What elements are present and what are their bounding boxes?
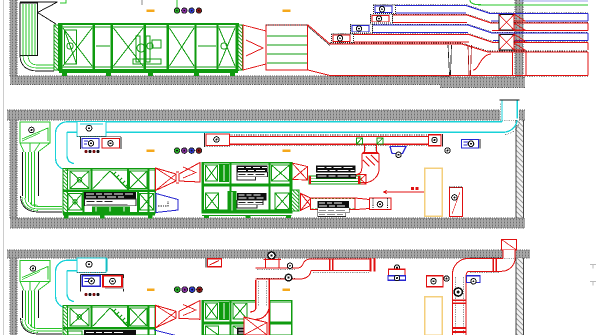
AHU A fan internals [133,36,161,64]
duct C right elbow top [468,258,515,272]
damper square 2 [377,138,383,144]
louver slot C [23,291,39,330]
AHU2 B label row2 [237,193,267,208]
duct C right elbow left + down leg [453,259,469,335]
label block B row1 [316,165,356,178]
cyan roof stub B [500,100,520,122]
AHU2 C frame [202,301,292,335]
fan unit D2 [371,14,393,23]
AHU2 C fan block [219,302,229,320]
silencer B row1 [309,176,360,184]
bowtie C [156,301,201,328]
red unit C [103,276,122,287]
S-duct C down leg overlay [250,279,269,335]
AHU A inlet louver strip [54,25,59,70]
S-duct C down leg [250,279,269,319]
mount bracket B [81,137,122,149]
roof band B [7,110,525,120]
AHU2 B frame [202,163,292,213]
flex braces at wall [514,14,525,50]
damper dot C right [454,288,462,296]
edge tick marks right [590,265,596,286]
AHU A discharge louver strip [238,25,243,70]
blue tag C right [467,276,481,284]
AHU A base [59,70,238,76]
ceiling supply duct B [229,135,432,145]
damper node C duct [285,274,292,281]
fan unit D1 [374,5,396,14]
AHU1 C row2 cell partial [68,331,82,335]
indicator dots C [84,293,99,296]
roof band C [7,250,530,258]
flange pair C right run [493,259,498,272]
AHU1 B cell2 row1 [130,171,148,189]
roof stub square C right [502,240,517,259]
hanger brace box 2 [499,35,514,51]
row2 supply duct B [311,198,356,210]
bowtie transition B [156,163,201,191]
discharge X transition C [244,317,267,335]
cyan end piece C [101,259,108,272]
orange dash C mid [282,288,284,290]
flex connector row2 B [301,193,311,210]
status dots C [174,287,202,293]
floor slab B [10,218,525,228]
status dots B [174,148,202,154]
red cabinet B [449,187,463,217]
AHU1 B coil bar [92,207,130,213]
status dots A [174,8,201,13]
orange dash B right [283,150,291,153]
column A (hatched wall pier) [515,0,523,78]
flex connector row1 left B [292,163,308,180]
AHU1 C frame [63,306,155,335]
duct D2 (red) [372,14,588,31]
indicator dots B [84,150,99,153]
AHU2 B cell row1 left [206,165,218,181]
red unit B [102,139,120,149]
duct D4 (red) [333,34,588,51]
louver elbow A [20,56,54,72]
AHU2 B cell row1 right [272,165,290,181]
branch drop duct B [362,145,379,169]
return duct riser B (cyan elbow down) [56,122,75,170]
duct end unit B [429,134,443,147]
fan unit D3 [351,24,373,33]
roof line green A [470,0,588,5]
intake louver A [20,3,38,56]
wall A left [10,0,17,76]
blue unit B [82,139,99,149]
intake hood C [20,261,50,282]
duct D1 (blue) [375,5,588,22]
AHU2 B label row1 [237,166,268,181]
end cap C run2 [370,258,376,272]
damper blade curve A [473,54,491,70]
S-duct C run1 [256,268,301,279]
faint blue line A [520,0,588,2]
wall C right [516,258,524,335]
AHU2 B cell row2 left [206,193,219,210]
wall B left [10,120,17,218]
node circle C roof [268,252,275,259]
AHU1 B fan cell row2 [68,194,82,211]
wall C left [10,258,17,335]
node ring C duct [287,263,292,268]
AHU1 B feet [64,215,153,218]
intake plenum outline A [20,2,58,24]
cyan fan box C [77,258,106,273]
return transition blue C partial [154,330,176,335]
flange pair C run2 [329,259,334,271]
AHU2 B fan block row1 [219,164,229,182]
AHU1 C truss [93,308,129,327]
AHU1 C row2 label partial [84,330,136,335]
floor slab A right [440,77,525,88]
ceiling fan unit B [204,133,230,147]
hanger brace box 1 [499,15,514,31]
green status line A [176,0,178,8]
AHU2 C row2 cells partial [206,326,248,335]
mount bracket C [81,275,124,292]
floor slab A [10,76,450,85]
orange dash A left [147,10,155,13]
blue tag B right [462,139,481,149]
transition A2 [308,25,330,76]
AHU1 B truss [93,171,129,190]
dimension text 88 [411,187,419,190]
louver slot B [23,152,39,207]
AHU1 B frame [63,169,155,216]
louver elbow B [21,196,63,212]
cyan main duct B [67,119,520,135]
discharge X transition C overlay [244,317,267,335]
fan unit D4 [332,34,354,43]
fan symbol C mid2 [427,276,450,287]
AHU1 C fan cell [70,308,89,326]
orange dash C right [283,289,291,292]
return duct riser C [56,260,75,308]
orange dash C left [147,289,155,292]
damper flag blue B [390,147,406,158]
flex joints at column A [513,53,527,76]
S-duct C run2 [311,258,370,272]
cyan fan box B [77,122,106,137]
roof stub duct C left [264,258,282,268]
duct D3 (blue) [352,24,588,41]
node circle B mid [445,148,450,153]
AHU1 C cell2 [130,308,148,326]
AHU2 B feet [204,215,291,218]
AHU1 B cell row2 right [140,194,154,211]
AHU1 B fan cell row1 [70,171,89,189]
AHU2 C cell1 [206,303,218,319]
coil box A [266,25,308,70]
AHU2 B fan block row2 [228,191,237,212]
intake funnel C [20,282,50,291]
wall B right [516,120,524,218]
damper A2 [468,45,472,75]
return transition blue B [156,194,178,213]
equipment outline yellow B [425,168,443,216]
row2 fan duct B [370,198,392,210]
transition A1 [243,25,266,70]
top edge green mark [60,0,66,3]
intake hood B [20,122,50,143]
AHU2 C label row2 partial [237,328,267,335]
row2 transition B [355,198,370,210]
damper square 1 [357,138,363,144]
orange dash B left [147,150,155,153]
equipment outline yellow C [425,297,443,335]
S-duct C rise elbow [298,259,312,279]
shadow red unit C [105,278,124,289]
louver elbow C [21,318,63,334]
joint flanges C down leg [453,300,467,334]
AHU1 B label block [84,192,136,206]
row1 supply flex right [356,175,367,185]
discharge louver strip AHU2 B [292,190,299,211]
damper A1 [448,45,452,75]
AHU A casing [59,24,238,70]
AHU A X-braces [63,28,235,66]
dimension line B [383,190,425,195]
main supply duct A [330,43,588,77]
label box C top [206,258,222,267]
intake funnel B [20,143,50,152]
elbow to row1 supply B [356,168,380,183]
orange dash A right [283,10,291,13]
AHU2 C cell2 [233,303,247,319]
fan symbol C mid1 [388,265,406,281]
grid line left margin [3,0,5,335]
blue unit C [82,276,100,287]
AHU2 B cell row2 right [275,193,290,210]
cyan duct C [67,260,101,270]
label block row2 B [318,201,350,216]
top edge tick [141,0,143,5]
